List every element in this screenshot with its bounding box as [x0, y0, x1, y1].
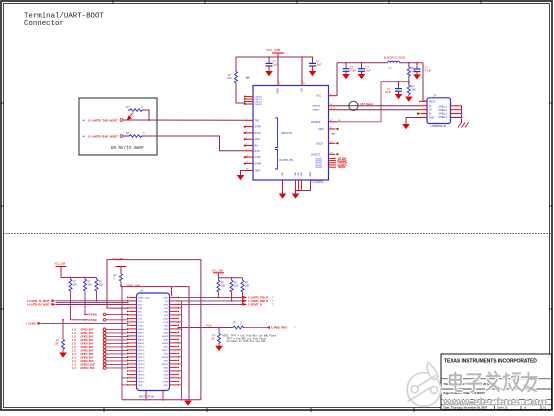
- connector J3 pin row 21: [127, 367, 179, 370]
- ground U1 b: [292, 191, 300, 199]
- svg-text:TXD: TXD: [138, 301, 143, 303]
- junction rail1 a: [70, 277, 72, 279]
- junction rail1 b: [84, 277, 86, 279]
- junction bottom rail A: [181, 399, 183, 401]
- ground C5: [395, 94, 403, 99]
- svg-text:X_PWD_TMS?: X_PWD_TMS?: [271, 327, 288, 330]
- svg-text:3_UART0_TX_BOOT: 3_UART0_TX_BOOT: [27, 300, 50, 303]
- svg-text:SHELL3: SHELL3: [439, 114, 448, 116]
- resistor pulldown RQ: [55, 320, 65, 349]
- wire bottom gnd bus: [122, 399, 201, 401]
- svg-text:TRST_: TRST_: [138, 325, 145, 327]
- svg-text:GPIO9: GPIO9: [138, 378, 145, 380]
- svg-text:GND: GND: [138, 385, 143, 387]
- svg-text:GPIO8: GPIO8: [138, 374, 145, 376]
- svg-text:GPIO5_BUF: GPIO5_BUF: [81, 347, 95, 349]
- wire top rail right: [337, 62, 388, 64]
- node bundle row 10: [72, 360, 129, 364]
- svg-text:BLM18PG221SN1D: BLM18PG221SN1D: [384, 57, 406, 60]
- resistor R1 swap top: [126, 105, 145, 111]
- svg-text:GND: GND: [163, 318, 168, 320]
- connector J3 pin row 19: [127, 360, 179, 363]
- svg-text:SYS: SYS: [164, 315, 169, 317]
- svg-text:USBDM: USBDM: [312, 105, 320, 107]
- wire RU3 drop: [242, 292, 244, 305]
- svg-text:VCC_BB: VCC_BB: [112, 257, 123, 261]
- resistor RP1: [69, 278, 78, 292]
- svg-text:RESV: RESV: [138, 381, 144, 383]
- svg-text:GND: GND: [163, 367, 168, 369]
- svg-text:GND: GND: [163, 385, 168, 387]
- resistor pulldown RT: [211, 327, 221, 344]
- J2 ID nc arrow: [417, 112, 421, 115]
- junction C1: [268, 56, 270, 58]
- svg-text:GPIO6_BUF: GPIO6_BUF: [81, 351, 95, 353]
- wire VBUS: [423, 63, 427, 102]
- svg-text:DTR#: DTR#: [255, 126, 262, 129]
- wire out row 2: [178, 300, 275, 304]
- watermark logo: [407, 363, 441, 407]
- junction R4: [408, 62, 410, 64]
- svg-text:GND: GND: [163, 339, 168, 341]
- junction C6: [416, 62, 418, 64]
- node bundle row 3: [72, 335, 129, 339]
- svg-text:VREF_GND: VREF_GND: [138, 297, 150, 299]
- wire R3 to CBUS pins: [236, 85, 246, 104]
- svg-text:DSR#: DSR#: [255, 162, 262, 165]
- wire VCC rail top: [236, 56, 313, 58]
- U1 output pin labels: [255, 150, 262, 166]
- svg-text:RSV: RSV: [164, 371, 169, 373]
- wire RXD to U1: [145, 136, 246, 151]
- capacitor C6: [414, 63, 432, 75]
- connector J3 pin row 23: [127, 374, 179, 377]
- wire row t3: [56, 304, 129, 306]
- resistor RP3: [95, 278, 104, 292]
- wire row t1: [56, 300, 129, 302]
- svg-text:TDIS: TDIS: [163, 322, 168, 324]
- U1 bottom pin GND b c d stubs: [296, 180, 302, 191]
- U1 right CBUS cluster labels: [338, 158, 349, 169]
- wire rail after L: [400, 62, 424, 64]
- connector J3 pin row 25: [127, 381, 179, 384]
- svg-text:GND: GND: [163, 332, 168, 334]
- connector J3 pin row 7: [127, 318, 179, 321]
- connector J3 pin row 1: [127, 297, 179, 300]
- junction C4: [361, 62, 363, 64]
- node bundle row 9: [72, 356, 129, 360]
- svg-text:GND: GND: [163, 325, 168, 327]
- wire shell rail: [461, 106, 463, 123]
- port arrowheads: [52, 299, 56, 306]
- svg-text:OUTPUTS: OUTPUTS: [279, 158, 293, 162]
- svg-text:USBDP: USBDP: [312, 110, 320, 112]
- U1 pin26 label speck: [338, 120, 341, 122]
- U1 input pin no-connect dots: [244, 126, 246, 147]
- ground R5: [405, 97, 413, 102]
- title block: [441, 354, 552, 410]
- capacitor C1: [266, 57, 279, 70]
- wire right rail A: [181, 301, 183, 400]
- svg-text:Connector: Connector: [24, 20, 64, 28]
- svg-text:RTS#: RTS#: [255, 132, 262, 135]
- svg-text:CTS#: CTS#: [255, 156, 262, 159]
- svg-text:RSV: RSV: [164, 329, 169, 331]
- U1 input pin labels: [255, 119, 262, 147]
- U1 input pin numbers: [246, 119, 248, 146]
- svg-text:EMU5: EMU5: [162, 336, 169, 338]
- junction GND c: [298, 190, 300, 192]
- wire VCC down to U1 pin4: [301, 57, 303, 85]
- connector J3 pin row 4: [127, 307, 179, 310]
- svg-text:1_CLKIN: 1_CLKIN: [26, 324, 36, 326]
- J2 pin names: [429, 101, 436, 119]
- svg-text:RSV: RSV: [164, 378, 169, 380]
- chassis ground: [458, 123, 469, 128]
- U1 right CBUS cluster stubs: [329, 158, 337, 167]
- junction divider: [408, 81, 410, 83]
- resistor series R0: [233, 321, 245, 329]
- svg-text:OSCI: OSCI: [318, 128, 324, 131]
- capacitor C5: [385, 82, 402, 94]
- capacitor C4: [358, 63, 371, 74]
- resistor R2 on RXD: [123, 131, 145, 137]
- svg-text:TDIS: TDIS: [206, 325, 212, 328]
- svg-text:10K: 10K: [227, 76, 232, 80]
- ground C4: [358, 74, 366, 79]
- resistor RU3: [241, 278, 250, 292]
- svg-text:ID: ID: [429, 114, 432, 116]
- connector J3 pin row 18: [127, 356, 179, 359]
- series resistor 0R row A: [84, 313, 129, 317]
- svg-text:NC: NC: [165, 301, 169, 303]
- svg-text:VCCIO: VCCIO: [276, 88, 279, 94]
- resistor RU2: [230, 278, 239, 292]
- wire left rail link 26: [121, 384, 128, 386]
- ground J2: [402, 124, 410, 129]
- wire rail to R3: [235, 57, 237, 70]
- port arrow X_TCK: [26, 322, 129, 326]
- connector J3 pin row 6: [127, 314, 179, 317]
- connector J3 pin row 20: [127, 363, 179, 366]
- power VCC_BB 3: [212, 268, 225, 278]
- junction rail3 a: [231, 277, 233, 279]
- svg-text:GPIO6: GPIO6: [138, 367, 145, 369]
- svg-text:10K: 10K: [99, 283, 104, 286]
- svg-text:GPIO0: GPIO0: [138, 346, 145, 348]
- wire RP3 drop: [96, 291, 98, 301]
- ground RQ: [59, 349, 67, 358]
- junction C5: [398, 81, 400, 83]
- svg-text:GND: GND: [163, 360, 168, 362]
- wire U1 VCC to top rail: [336, 63, 338, 96]
- svg-text:EMU0: EMU0: [138, 329, 145, 331]
- connector J3 pin row 9: [127, 325, 179, 328]
- svg-text:EMU2: EMU2: [138, 336, 145, 338]
- node bundle row 1: [72, 328, 129, 332]
- svg-text:DO RX/TX SWAP: DO RX/TX SWAP: [111, 146, 144, 151]
- junction row B: [62, 319, 64, 321]
- ground C6: [413, 74, 421, 79]
- wire J2 gnd: [406, 118, 419, 125]
- svg-text:GPIO7: GPIO7: [138, 371, 145, 373]
- svg-text:XDin: XDin: [255, 138, 261, 141]
- U1 right pin RESET: [311, 120, 337, 124]
- svg-text:GND: GND: [163, 346, 168, 348]
- U1 right pin OSCI nc: [318, 127, 339, 131]
- svg-text:EMU4: EMU4: [138, 343, 145, 345]
- svg-text:MICTOR-38: MICTOR-38: [139, 394, 154, 398]
- node X_UART0_RXD_BOOT label: [82, 134, 118, 138]
- connector J3 pin row 17: [127, 353, 179, 356]
- connector J3 pin row 8: [127, 321, 179, 324]
- connector J3 pin row 16: [127, 349, 179, 352]
- svg-text:VCC_BB: VCC_BB: [212, 268, 223, 272]
- svg-text:GPIO1: GPIO1: [138, 350, 145, 352]
- U1 output pin numbers: [246, 149, 249, 164]
- power VCC_USB: [272, 53, 284, 57]
- svg-text:n/TRM: n/TRM: [162, 381, 169, 383]
- svg-text:SHELL4: SHELL4: [439, 117, 448, 119]
- svg-text:EMU6: EMU6: [162, 343, 169, 345]
- wire row t2: [56, 302, 129, 304]
- svg-text:EMU9: EMU9: [162, 364, 169, 366]
- svg-text:.1uF: .1uF: [273, 63, 279, 67]
- svg-text:10K: 10K: [73, 283, 78, 286]
- U1 CBUS stub pins: [246, 97, 254, 105]
- svg-text:TDI: TDI: [138, 311, 142, 313]
- connector bottom pin b: [162, 391, 164, 401]
- svg-text:10K: 10K: [234, 284, 239, 287]
- svg-text:TXD: TXD: [255, 119, 260, 122]
- svg-text:10nF: 10nF: [385, 90, 391, 94]
- svg-text:VCC: VCC: [316, 95, 321, 98]
- svg-text:CBUS4: CBUS4: [315, 167, 323, 169]
- wire left rail: [121, 287, 122, 400]
- svg-text:RESET#: RESET#: [311, 121, 321, 124]
- ground RT: [215, 343, 223, 351]
- resistor R4: [407, 63, 417, 78]
- wire TEST to ground: [241, 171, 246, 176]
- svg-text:TEXAS INSTRUMENTS INCORPORATED: TEXAS INSTRUMENTS INCORPORATED: [444, 359, 537, 365]
- svg-text:4.7uF: 4.7uF: [425, 69, 432, 73]
- series resistor 0R row B: [71, 319, 129, 323]
- svg-text:GPIO9_BUF: GPIO9_BUF: [81, 361, 95, 363]
- node bundle row 5: [72, 342, 129, 346]
- svg-text:RSV: RSV: [164, 304, 169, 306]
- junction rail A dots: [181, 307, 183, 379]
- net label VREF_GND: [127, 284, 141, 287]
- svg-text:4_UART0_RX_BOOT: 4_UART0_RX_BOOT: [27, 303, 50, 306]
- inductor L1: [388, 61, 400, 63]
- junction GND b: [295, 190, 297, 192]
- U1 output pin no-connect dots: [244, 156, 246, 164]
- node bundle row 8: [72, 353, 129, 357]
- svg-text:GPIO8_BUF: GPIO8_BUF: [81, 358, 95, 360]
- svg-text:GPIO1_BUF: GPIO1_BUF: [81, 333, 95, 335]
- svg-text:www.elecfans.com: www.elecfans.com: [442, 397, 548, 409]
- inputs bracket: [275, 118, 278, 148]
- resistor RP2: [84, 278, 93, 292]
- resistor RV: [114, 274, 123, 286]
- resistor R5: [407, 84, 416, 96]
- resistor RU1: [217, 278, 226, 292]
- op chip U1 FT232RL body: [253, 86, 329, 181]
- junction C3: [345, 62, 347, 64]
- svg-text:X_UART0_RXD_BOOT: X_UART0_RXD_BOOT: [88, 134, 118, 138]
- black option box: [79, 98, 157, 155]
- outputs bracket: [275, 150, 278, 170]
- svg-text:FT232RL: FT232RL: [310, 180, 324, 184]
- J2 shell names: [439, 106, 448, 119]
- svg-text:VCC_USB: VCC_USB: [266, 48, 280, 52]
- svg-text:RXD: RXD: [138, 304, 143, 306]
- U1 bottom pin AGND stub: [310, 180, 312, 184]
- svg-text:J?: J?: [433, 94, 437, 98]
- svg-text:VCC_BB: VCC_BB: [54, 262, 65, 266]
- resistor R3: [227, 70, 238, 85]
- svg-text:D-: D-: [429, 106, 432, 108]
- connector J3 pin row 2: [127, 300, 179, 303]
- svg-text:TMS: TMS: [138, 308, 143, 310]
- svg-text:EMU1: EMU1: [138, 332, 145, 334]
- svg-text:GPIO7_BUF: GPIO7_BUF: [81, 354, 95, 356]
- connector J3 body: [137, 289, 170, 399]
- svg-text:GND: GND: [163, 353, 168, 355]
- U1 output pins stubs: [246, 151, 254, 164]
- connector J3 pin row 22: [127, 370, 179, 373]
- svg-text:47pF: 47pF: [350, 68, 356, 72]
- wire TDIS row: [178, 325, 233, 329]
- junction left rail top: [120, 285, 122, 287]
- svg-text:EMU3: EMU3: [138, 339, 145, 341]
- svg-text:GPIO2: GPIO2: [138, 353, 145, 355]
- connector J3 pin row 11: [127, 332, 179, 335]
- svg-text:NC: NC: [246, 76, 250, 80]
- wire RU2 drop: [231, 292, 233, 302]
- ferrite bead circle: [349, 101, 358, 110]
- U1 top pin VCC stub: [302, 80, 306, 86]
- node bundle row 11: [72, 363, 129, 367]
- U1 right pin OSCO nc: [316, 142, 339, 146]
- ground C1: [265, 70, 273, 76]
- svg-text:EMU7: EMU7: [162, 350, 169, 352]
- border zone tick left: [0, 103, 4, 309]
- svg-text:GPIO3: GPIO3: [138, 357, 145, 359]
- capacitor C3: [343, 63, 357, 74]
- connector J3 pin row 24: [127, 377, 179, 380]
- wire TXD to U1: [123, 119, 246, 121]
- svg-text:GPIO10_BUF: GPIO10_BUF: [81, 365, 96, 367]
- section separator dashed line: [3, 233, 551, 235]
- svg-text:X_UART0_TXD_BOOT: X_UART0_TXD_BOOT: [88, 118, 118, 122]
- connector J2 USB body: [427, 98, 451, 124]
- wire VREF rail B: [121, 286, 189, 400]
- note text: [223, 334, 277, 343]
- svg-text:J?: J?: [140, 289, 143, 293]
- U1 top pin VCCIO stub: [278, 80, 281, 86]
- ground bottom: [184, 400, 192, 406]
- wire to port TMS: [245, 326, 297, 330]
- svg-text:3V3OUT: 3V3OUT: [311, 153, 321, 156]
- svg-text:R?0402: R?0402: [89, 319, 98, 322]
- svg-text:CBUS3: CBUS3: [255, 104, 263, 106]
- U1 CBUS pin dots: [244, 96, 246, 105]
- svg-text:GPIO0_BUF: GPIO0_BUF: [81, 330, 95, 332]
- connector bottom pin a: [145, 391, 147, 401]
- terminal circle TXD: [120, 119, 123, 122]
- junction shell c: [461, 117, 463, 119]
- U1 pin TEST stub: [246, 169, 262, 173]
- node bundle row 4: [72, 339, 129, 343]
- border zone tick right: [549, 103, 553, 309]
- power VCC_BB 1: [54, 262, 67, 278]
- svg-text:TVD: TVD: [164, 308, 169, 310]
- node bundle row 7: [72, 349, 129, 353]
- U1 CBUS pin labels: [255, 96, 263, 106]
- junction pin4: [301, 56, 303, 58]
- svg-text:Pulldown on TDIS Pin via 10K: Pulldown on TDIS Pin via 10K: [227, 340, 266, 343]
- svg-text:GND: GND: [163, 311, 168, 313]
- wire USBDP: [337, 109, 419, 111]
- U1 top pin names vertical: [276, 88, 303, 94]
- svg-text:GPIO11_BUF: GPIO11_BUF: [81, 368, 96, 370]
- svg-text:10K: 10K: [411, 88, 416, 92]
- node bundle row 2: [72, 332, 129, 336]
- terminal circle RXD: [120, 135, 123, 138]
- wire RP2 drop: [84, 291, 86, 314]
- wire out row 1: [178, 296, 275, 300]
- border zone tick top: [113, 0, 481, 4]
- svg-text:INPUTS: INPUTS: [281, 131, 292, 135]
- ground C2: [309, 70, 317, 76]
- port arrow X_UART0_TXD: [27, 300, 50, 307]
- connector J3 pin row 3: [127, 304, 179, 307]
- svg-text:RIn: RIn: [255, 145, 259, 148]
- svg-text:GPIO5: GPIO5: [138, 364, 145, 366]
- watermark cjk glyphs: [450, 372, 537, 392]
- svg-text:RTCK: RTCK: [138, 322, 144, 324]
- junction RP3 row: [96, 300, 98, 302]
- border zone tick bottom: [104, 408, 414, 412]
- svg-text:10K: 10K: [245, 284, 250, 287]
- wire GND bus: [296, 184, 311, 191]
- svg-text:GND: GND: [163, 297, 168, 299]
- ground U1 a: [279, 194, 287, 199]
- connector J3 pin row 15: [127, 346, 179, 349]
- svg-text:R?: R?: [126, 131, 130, 135]
- wire USBDM: [337, 105, 419, 107]
- svg-text:12M: 12M: [331, 134, 335, 136]
- svg-text:USBMINI-B: USBMINI-B: [431, 124, 447, 128]
- svg-text:.1uF: .1uF: [366, 68, 372, 72]
- svg-text:TDO: TDO: [138, 315, 143, 317]
- svg-text:GND: GND: [163, 374, 168, 376]
- U1 right CBUS inner labels: [315, 158, 323, 169]
- label OSC specks: [331, 134, 335, 136]
- svg-text:GPIO4: GPIO4: [138, 360, 145, 362]
- J2 pin numbers: [424, 100, 426, 118]
- svg-text:TXDEN: TXDEN: [338, 167, 346, 169]
- svg-text:2_RESET_B: 2_RESET_B: [248, 304, 262, 307]
- wire RU1 drop: [217, 292, 219, 298]
- svg-text:SHELL2: SHELL2: [439, 110, 448, 112]
- node bundle row 12: [72, 367, 129, 371]
- connector J3 pin row 14: [127, 342, 179, 345]
- svg-text:R?: R?: [126, 105, 130, 109]
- wire pullup rail 3: [218, 277, 242, 279]
- wire GND a down: [282, 184, 284, 194]
